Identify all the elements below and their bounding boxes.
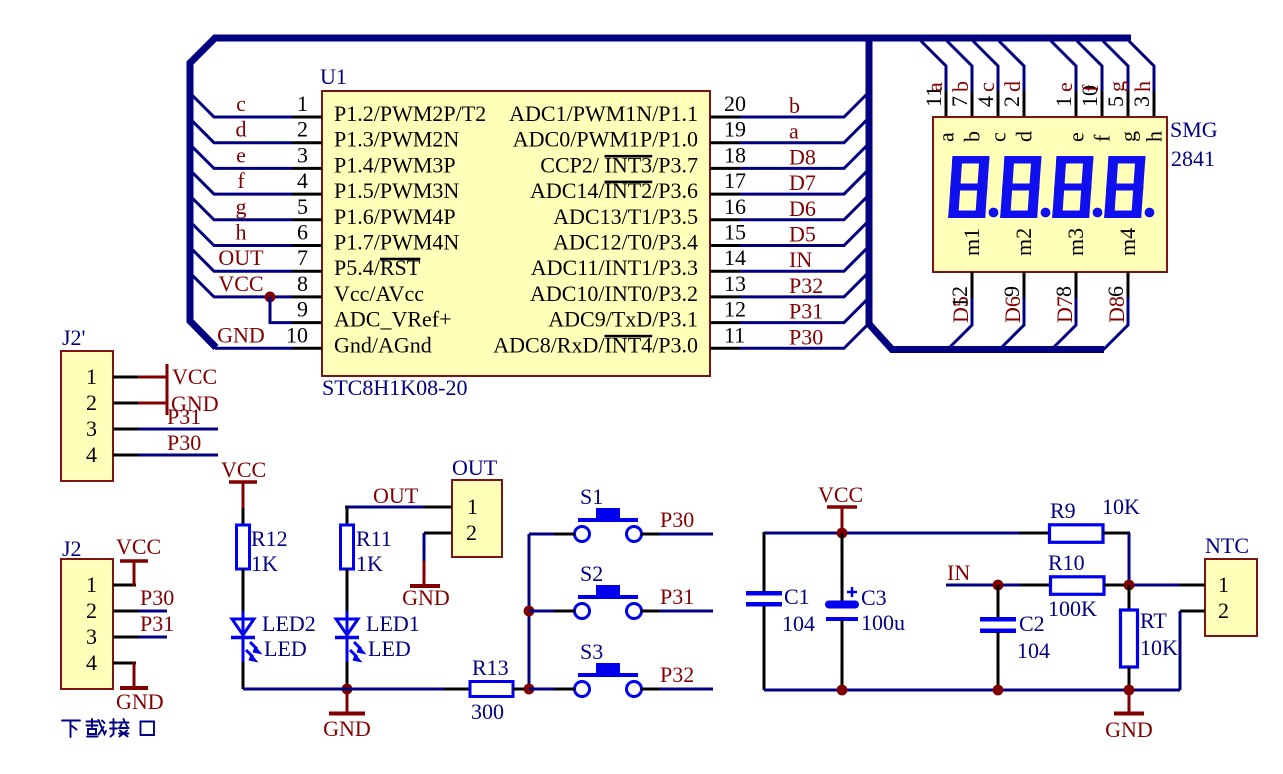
svg-text:m1: m1 [959,228,984,256]
pin 11 stub [710,347,740,350]
pin 18 stub [710,167,740,170]
wire net d to pin 2 [190,119,292,143]
VCC power bar above R12 [229,480,257,484]
svg-text:12: 12 [724,297,746,322]
wire R9 left pin [1019,532,1050,535]
seven-segment digit 4 [1104,156,1145,218]
wire net D8 pin 18 [740,143,869,168]
svg-text:S2: S2 [580,561,603,586]
wire R11 to LED1 [346,569,349,614]
LED LED1 symbol [335,611,367,663]
svg-text:U1: U1 [320,64,347,89]
svg-text:LED2: LED2 [262,611,316,636]
bus right vertical and bottom thick wire [869,36,1104,350]
wire R9 right pin [1103,532,1130,535]
pin 8 stub [292,295,322,298]
seven-segment digit 2 [1000,156,1041,218]
svg-text:D6: D6 [1000,296,1025,323]
switch S3 [575,663,642,697]
resistor R12 [237,525,250,569]
svg-text:6: 6 [297,220,308,245]
svg-text:h: h [1142,131,1167,142]
wire net g to pin 5 [190,196,292,220]
wire R13 right pin [513,688,530,691]
overline RST [380,258,420,261]
svg-text:1: 1 [1218,572,1229,597]
svg-text:ADC_VRef+: ADC_VRef+ [334,307,452,332]
svg-text:4: 4 [86,650,97,675]
svg-text:R11: R11 [356,526,392,551]
svg-text:RT: RT [1140,608,1167,633]
pin 3 stub [292,167,322,170]
svg-text:VCC: VCC [818,482,863,507]
svg-text:P1.7/PWM4N: P1.7/PWM4N [334,230,459,255]
svg-text:1: 1 [86,572,97,597]
connector NTC body [1205,559,1257,636]
display pin 3 lead [1153,91,1156,118]
GND stem RC [1128,690,1131,712]
svg-text:D8: D8 [789,144,816,169]
svg-text:104: 104 [1017,638,1050,663]
wire J2' pin1 to VCC [138,376,167,379]
svg-text:10K: 10K [1140,635,1178,660]
wire R12 to LED2 [242,569,245,614]
svg-text:4: 4 [86,442,97,467]
wire segment b from bus [947,41,972,91]
J2 pin 3 stub [113,636,138,639]
svg-text:GND: GND [1105,717,1153,742]
svg-text:100u: 100u [861,610,905,635]
svg-text:J2: J2 [62,536,82,561]
wire net D5 pin 15 [740,221,869,246]
J2' pin 3 stub [113,428,138,431]
svg-text:1: 1 [86,364,97,389]
display pin 11 lead [945,91,948,118]
VCC stem RC [841,507,844,533]
GND stem LED rail [346,689,349,712]
VCC power bar J2 [120,559,148,563]
wire VCC top rail [764,532,1050,535]
NTC pin 2 stub [1180,610,1205,613]
svg-text:11: 11 [724,322,745,347]
svg-text:ADC8/RxD/INT4/P3.0: ADC8/RxD/INT4/P3.0 [493,332,698,357]
svg-text:104: 104 [782,611,815,636]
wire R10 left pin [1021,584,1051,587]
wire segment e from bus [1051,41,1076,91]
svg-text:g: g [1104,81,1129,92]
svg-text:OUT: OUT [373,483,419,508]
junction button column S2 [524,606,535,617]
display pin 6 lead [1127,272,1130,298]
wire GND to pin 10 [215,347,292,350]
wire segment D7 to bus [1051,298,1076,350]
svg-text:b: b [960,131,985,142]
wire J2' pin4 P30 [138,454,218,457]
pin 16 stub [710,218,740,221]
svg-text:g: g [1116,131,1141,142]
wire net f to pin 4 [190,170,292,194]
svg-text:LED: LED [264,636,307,661]
svg-text:2: 2 [297,117,308,142]
wire LED2 to rail [242,662,245,689]
display pin 4 lead [997,91,1000,118]
seven-segment digit 3 [1052,156,1093,218]
svg-text:IN: IN [947,560,970,585]
wire C2 branch bottom [997,632,1000,690]
svg-text:D7: D7 [1052,296,1077,323]
svg-text:Vcc/AVcc: Vcc/AVcc [334,281,424,306]
wire OUT to R11 [346,506,349,525]
svg-text:9: 9 [999,286,1024,297]
wire VCC to C3 [841,533,844,601]
svg-text:b: b [948,81,973,92]
wire J2' pin2 to GND [138,402,167,405]
svg-text:a: a [789,119,799,144]
GND power bar J2 [120,686,148,690]
power bar VCC/GND J2' [166,364,169,415]
wire R10 right pin [1104,584,1129,587]
svg-text:ADC1/PWM1N/P1.1: ADC1/PWM1N/P1.1 [509,101,698,126]
OUT pin 1 stub [424,506,452,509]
svg-text:R13: R13 [472,655,509,680]
display pin 2 lead [1023,91,1026,118]
wire ground rail RC [764,689,1180,692]
svg-text:3: 3 [86,416,97,441]
wire segment D6 to bus [999,298,1024,350]
svg-text:R12: R12 [251,526,288,551]
svg-text:2841: 2841 [1171,146,1215,171]
wire ground rail [243,688,444,691]
svg-text:2: 2 [466,520,477,545]
pin 9 stub [292,321,322,324]
wire button column [528,534,531,689]
J2 pin 2 stub [113,610,138,613]
svg-text:e: e [1052,82,1077,92]
connector J2' body [61,351,113,481]
seven-segment digit 1 [948,156,989,218]
wire node to RT [1128,585,1131,610]
svg-text:18: 18 [724,142,746,167]
display pin 5 lead [1127,91,1130,118]
LED LED2 symbol [231,611,263,663]
decimal point 2 [1041,208,1051,218]
wire segment d from bus [999,41,1024,91]
J2 pin 1 stub [113,584,136,587]
svg-text:10K: 10K [1102,494,1140,519]
J2 pin 4 stub [113,662,136,665]
wire net e to pin 3 [190,144,292,168]
resistor R9 [1050,525,1104,543]
connector OUT body [452,480,502,557]
svg-text:C3: C3 [861,585,887,610]
pin 12 stub [710,321,740,324]
wire net P31 [659,610,713,613]
svg-text:D6: D6 [789,196,816,221]
wire net VCC to pin 8 [190,273,292,297]
svg-text:2: 2 [86,598,97,623]
wire C2 branch top [997,585,1000,617]
junction VCC pin8 [265,292,276,303]
svg-text:IN: IN [789,247,812,272]
svg-text:ADC10/INT0/P3.2: ADC10/INT0/P3.2 [530,281,698,306]
junction button column S3 [524,684,535,695]
wire segment h from bus [1129,41,1154,91]
resistor RT [1121,610,1138,667]
svg-text:VCC: VCC [221,457,266,482]
display pin 8 lead [1075,272,1078,298]
svg-text:c: c [986,132,1011,142]
display pin 10 lead [1101,91,1104,118]
svg-text:16: 16 [724,194,746,219]
wire segment c from bus [973,41,998,91]
svg-text:LED1: LED1 [366,611,420,636]
wire segment D8 to bus [1103,298,1128,350]
svg-text:g: g [236,194,247,219]
svg-text:m2: m2 [1011,228,1036,256]
wire J2 pin3 P31 [138,636,167,639]
svg-text:19: 19 [724,117,746,142]
svg-text:P31: P31 [789,299,823,324]
wire segment f from bus [1077,41,1102,91]
decimal point 1 [989,208,999,218]
svg-text:4: 4 [973,96,998,107]
wire S3 left stub [554,688,575,691]
wire S3 right stub [641,688,659,691]
caption Chinese download port 下载接口 [62,719,154,737]
wire LED1 to rail [346,662,349,689]
pin 7 stub [292,270,322,273]
VCC power bar RC [827,505,857,509]
svg-text:4: 4 [297,168,308,193]
wire J2 pin1 to VCC [133,562,136,586]
resistor R10 [1051,577,1105,595]
svg-text:f: f [1078,84,1103,92]
wire net D7 pin 17 [740,169,869,194]
svg-text:SMG: SMG [1170,117,1218,142]
svg-text:3: 3 [1129,96,1154,107]
svg-text:LED: LED [368,636,411,661]
svg-text:D5: D5 [789,222,816,247]
svg-text:10: 10 [286,322,308,347]
svg-text:5: 5 [297,194,308,219]
svg-text:P32: P32 [789,273,823,298]
pin 6 stub [292,244,322,247]
svg-text:8: 8 [297,271,308,296]
display pin 12 lead [971,272,974,298]
wire R13 to S3 [529,688,576,691]
svg-text:ADC12/T0/P3.4: ADC12/T0/P3.4 [553,230,698,255]
junction C3 rail [837,685,848,696]
wire R13 left pin [444,688,470,691]
wire OUT net [345,506,424,509]
svg-text:P32: P32 [660,662,694,687]
wire net P30 pin 11 [740,323,869,348]
OUT pin 2 stub [424,532,452,535]
VCC stem R12 [242,482,245,508]
svg-text:1: 1 [1051,96,1076,107]
J2' pin 4 stub [113,454,138,457]
wire pin8 VCC to pin9 [270,297,292,323]
pin 5 stub [292,218,322,221]
switch S2 [575,585,642,619]
junction C2 rail [993,685,1004,696]
svg-text:e: e [236,142,246,167]
pin 2 stub [292,141,322,144]
svg-text:7: 7 [297,245,308,270]
wire J2' pin3 P31 [138,428,218,431]
svg-text:d: d [1000,81,1025,92]
svg-text:ADC9/TxD/P3.1: ADC9/TxD/P3.1 [548,307,698,332]
wire net P32 pin 13 [740,272,869,297]
svg-text:12: 12 [947,286,972,308]
wire net OUT to pin 7 [190,247,292,271]
svg-text:2: 2 [1218,598,1229,623]
svg-text:14: 14 [724,245,746,270]
pin 19 stub [710,141,740,144]
svg-text:2: 2 [999,96,1024,107]
svg-text:c: c [236,91,246,116]
NTC pin 1 stub [1180,584,1205,587]
svg-text:ADC13/T1/P3.5: ADC13/T1/P3.5 [553,204,698,229]
wire J2 pin4 to GND [133,662,136,687]
svg-text:Gnd/AGnd: Gnd/AGnd [334,332,432,357]
pin 15 stub [710,244,740,247]
svg-text:15: 15 [724,220,746,245]
svg-text:P31: P31 [660,584,694,609]
capacitor C3 negative plate [826,617,858,621]
capacitor C3 plus sign [847,587,857,597]
svg-text:2: 2 [86,390,97,415]
wire segment a from bus [921,41,946,91]
GND power bar LED rail [329,712,365,716]
svg-text:d: d [236,117,247,142]
svg-text:a: a [934,132,959,142]
resistor R11 [341,525,354,569]
svg-text:8: 8 [1051,286,1076,297]
wire R9 to node [1128,533,1131,585]
svg-text:17: 17 [724,168,746,193]
wire segment D5 to bus [947,298,972,350]
connector J2 body [61,559,113,689]
wire S1 right stub [641,533,659,536]
junction RT rail [1124,685,1135,696]
wire S1 left stub [554,533,575,536]
svg-text:P30: P30 [140,585,174,610]
overline INT2 [605,181,653,184]
svg-text:e: e [1064,132,1089,142]
wire OUT pin2 to GND [423,533,426,562]
svg-text:b: b [789,93,800,118]
switch S1 [575,508,642,542]
wire net h to pin 6 [190,222,292,246]
wire net a pin 19 [740,118,869,143]
wire net c to pin 1 [190,93,292,117]
svg-text:STC8H1K08-20: STC8H1K08-20 [322,375,467,400]
pin 14 stub [710,270,740,273]
svg-text:P1.5/PWM3N: P1.5/PWM3N [334,178,459,203]
svg-text:f: f [237,168,245,193]
svg-text:R10: R10 [1048,550,1085,575]
svg-text:GND: GND [323,716,371,741]
pin 4 stub [292,193,322,196]
pin 1 stub [292,116,322,119]
J2' pin 2 stub [113,402,138,405]
pin 20 stub [710,116,740,119]
wire S1 from column [529,533,554,536]
svg-text:NTC: NTC [1205,533,1249,558]
overline INT3 [605,155,653,158]
svg-text:h: h [1130,81,1155,92]
svg-text:R9: R9 [1050,498,1076,523]
svg-text:13: 13 [724,271,746,296]
capacitor C1 [746,591,782,607]
svg-text:GND: GND [402,585,450,610]
svg-text:ADC0/PWM1P/P1.0: ADC0/PWM1P/P1.0 [513,127,698,152]
svg-text:VCC: VCC [172,364,217,389]
wire S2 left stub [554,610,575,613]
wire RT to rail [1128,667,1131,690]
svg-text:f: f [1090,134,1115,142]
svg-text:20: 20 [724,91,746,116]
svg-text:J2': J2' [62,325,86,350]
display pin 1 lead [1075,91,1078,118]
svg-text:5: 5 [1103,96,1128,107]
wire NTC pin2 to rail [1179,611,1182,690]
wire net IN pin 14 [740,246,869,271]
overline INT4 [605,335,653,338]
svg-text:h: h [236,220,247,245]
svg-text:VCC: VCC [218,271,263,296]
svg-text:D8: D8 [1104,296,1129,323]
junction IN C2 [993,580,1004,591]
svg-text:300: 300 [471,699,504,724]
svg-text:m3: m3 [1063,228,1088,256]
svg-text:1K: 1K [251,551,278,576]
svg-text:P1.4/PWM3P: P1.4/PWM3P [334,152,456,177]
svg-text:S3: S3 [580,639,603,664]
decimal point 3 [1093,208,1103,218]
svg-text:7: 7 [947,96,972,107]
J2' pin 1 stub [113,376,138,379]
svg-text:OUT: OUT [452,455,498,480]
display pin 9 lead [1023,272,1026,298]
capacitor C3 positive plate [829,601,855,609]
svg-text:9: 9 [297,297,308,322]
svg-text:D7: D7 [789,170,816,195]
wire S3 from rail [529,688,554,691]
svg-text:VCC: VCC [116,534,161,559]
wire segment g from bus [1103,41,1128,91]
svg-text:6: 6 [1103,286,1128,297]
wire net P30 [659,533,713,536]
svg-text:C2: C2 [1019,611,1045,636]
svg-text:1: 1 [467,494,478,519]
wire C3 to rail [841,620,844,690]
svg-text:P1.6/PWM4P: P1.6/PWM4P [334,204,456,229]
display pin 7 lead [971,91,974,118]
pin 13 stub [710,295,740,298]
svg-text:GND: GND [116,689,164,714]
junction LED1 rail [342,684,353,695]
wire VCC to R12 [242,508,245,525]
svg-text:3: 3 [297,142,308,167]
svg-text:GND: GND [217,322,265,347]
svg-text:m4: m4 [1115,228,1140,256]
pin 17 stub [710,193,740,196]
svg-text:d: d [1012,131,1037,142]
junction R9 R10 RT [1124,580,1135,591]
wire IN net [946,584,1051,587]
